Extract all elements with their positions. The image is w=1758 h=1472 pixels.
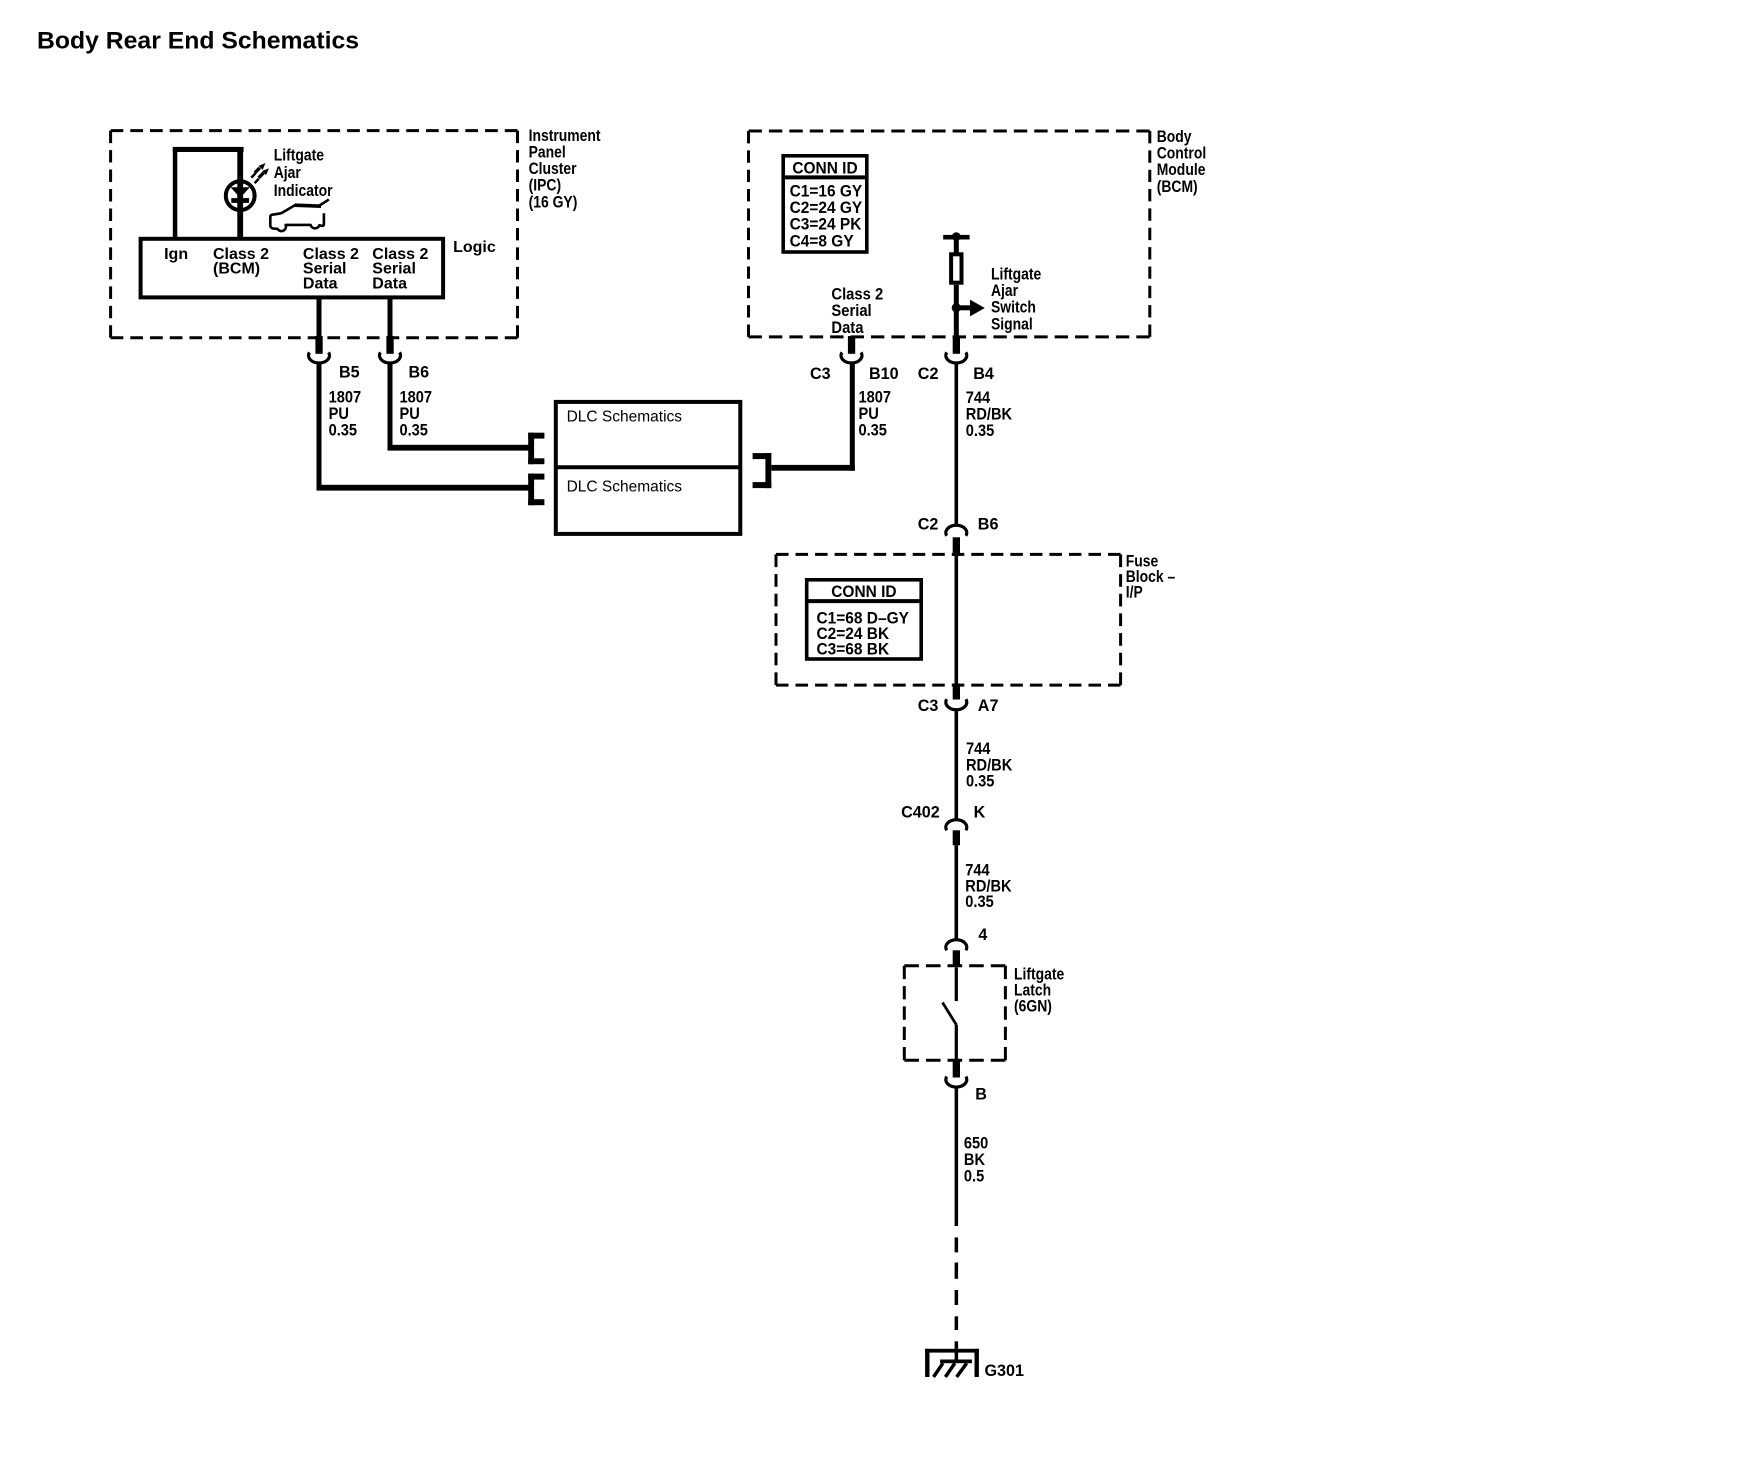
svg-text:C3=68 BK: C3=68 BK [817, 640, 890, 659]
svg-text:C2: C2 [918, 364, 939, 383]
label K [974, 802, 986, 821]
svg-text:DLC Schematics: DLC Schematics [567, 479, 683, 496]
label B6 [409, 362, 430, 381]
CONN ID table (BCM) [783, 156, 867, 252]
IPC box label [529, 127, 601, 212]
svg-text:C2: C2 [918, 514, 939, 533]
label B4 [973, 364, 994, 383]
svg-text:K: K [974, 802, 986, 821]
label B10 [869, 364, 899, 383]
logic box [141, 239, 444, 298]
svg-text:0.35: 0.35 [329, 422, 358, 440]
connector BCM pin B4 (C2) [946, 336, 967, 363]
svg-text:(BCM): (BCM) [1157, 178, 1198, 197]
Instrument Panel Cluster (IPC) dashed box [111, 131, 518, 338]
svg-text:PU: PU [859, 405, 879, 423]
svg-text:A7: A7 [978, 696, 999, 715]
svg-text:Indicator: Indicator [274, 182, 333, 201]
svg-text:BK: BK [964, 1151, 986, 1169]
wire label 744 RD/BK 0.35 (B4) [966, 389, 1013, 440]
svg-text:G301: G301 [985, 1361, 1025, 1380]
label A7 [978, 696, 999, 715]
internal node bar with junction dot (BCM top of resistor) [943, 232, 969, 241]
svg-text:PU: PU [329, 405, 349, 423]
label DLC Schematics (lower) [567, 479, 683, 496]
CONN ID table (fuse block) [807, 580, 922, 659]
wire label 744 RD/BK 0.35 (K) [965, 862, 1012, 912]
junction node with signal arrow [952, 300, 985, 317]
svg-text:B6: B6 [978, 514, 999, 533]
wire: logic box pin B6 to IPC edge [388, 297, 393, 337]
label C2 [918, 364, 939, 383]
label B [975, 1084, 987, 1103]
svg-text:B6: B6 [409, 362, 430, 381]
wire: Ign to indicator loop [173, 147, 244, 237]
title: Body Rear End Schematics [37, 28, 359, 55]
svg-text:C3: C3 [918, 696, 939, 715]
svg-text:Data: Data [372, 275, 407, 292]
wire: dashed section to G301 [955, 1237, 959, 1348]
logic pin label Class 2 (BCM) [213, 246, 269, 278]
BCM box label [1157, 128, 1207, 196]
connector C3 A7 (fuse block out) [946, 684, 967, 710]
svg-text:(16 GY): (16 GY) [529, 193, 578, 212]
logic pin label Class 2 Serial Data (pin B5) [303, 246, 359, 293]
LED light emission arrows [251, 163, 269, 183]
wire: logic box pin B5 to IPC edge [317, 297, 322, 337]
svg-text:CONN ID: CONN ID [792, 159, 858, 178]
svg-text:C402: C402 [901, 802, 940, 821]
svg-text:0.35: 0.35 [966, 422, 995, 440]
resistor (BCM pull-up) [951, 254, 961, 282]
DLC right tap bracket [753, 453, 772, 488]
connector C402 pin K [946, 820, 967, 846]
svg-text:1807: 1807 [329, 389, 362, 407]
DLC upper-left tap bracket [528, 433, 544, 465]
label Logic [453, 239, 496, 256]
DLC lower-left tap bracket [528, 474, 544, 506]
svg-text:Data: Data [303, 275, 338, 292]
svg-text:PU: PU [400, 405, 420, 423]
Body Control Module (BCM) dashed box [749, 131, 1150, 337]
label B6 (fuse) [978, 514, 999, 533]
svg-text:(BCM): (BCM) [213, 261, 260, 278]
logic pin label Ign [164, 246, 188, 263]
svg-text:Ajar: Ajar [274, 164, 301, 183]
svg-text:DLC Schematics: DLC Schematics [567, 409, 683, 426]
svg-text:Class 2: Class 2 [831, 285, 883, 303]
label Liftgate Ajar Switch Signal [991, 265, 1042, 333]
wire: through fuse block [955, 556, 959, 684]
wire: B6 down and right to DLC upper tap [388, 363, 531, 450]
svg-text:B: B [975, 1084, 987, 1103]
latch switch (open) [943, 967, 958, 1060]
connector BCM pin B10 (C3) [841, 336, 862, 363]
LED indicator lamp (Liftgate Ajar Indicator) [226, 181, 255, 210]
svg-text:0.5: 0.5 [964, 1168, 984, 1186]
svg-text:B5: B5 [339, 362, 360, 381]
label G301 [985, 1361, 1025, 1380]
svg-text:1807: 1807 [400, 389, 433, 407]
svg-text:Signal: Signal [991, 315, 1033, 334]
Liftgate Latch dashed box [904, 966, 1005, 1061]
svg-text:C3: C3 [810, 364, 831, 383]
wire label 1807 PU 0.35 (B5) [329, 389, 362, 440]
svg-text:0.35: 0.35 [965, 893, 994, 911]
label C3 (fuse out) [918, 696, 939, 715]
svg-text:0.35: 0.35 [966, 773, 995, 791]
svg-text:Logic: Logic [453, 239, 496, 256]
label 4 [978, 924, 988, 943]
connector IPC pin B5 [309, 336, 330, 363]
svg-text:0.35: 0.35 [859, 422, 888, 440]
ground G301 symbol [925, 1348, 979, 1377]
latch label [1014, 965, 1065, 1015]
connector C2 B6 (fuse block in) [946, 525, 967, 556]
wire: node bar to resistor [954, 240, 959, 253]
svg-text:Body Rear End Schematics: Body Rear End Schematics [37, 28, 359, 55]
svg-text:4: 4 [978, 924, 988, 943]
wire label 744 RD/BK 0.35 (A7) [966, 740, 1013, 791]
wire: C402 to liftgate latch [955, 845, 959, 939]
wire: A7 to C402 [955, 710, 959, 819]
svg-text:Ign: Ign [164, 246, 188, 263]
svg-text:Data: Data [831, 319, 863, 337]
wire: B5 down and right to DLC lower tap [317, 363, 531, 490]
connector IPC pin B6 [380, 336, 401, 363]
svg-text:650: 650 [964, 1135, 989, 1153]
svg-text:B4: B4 [973, 364, 994, 383]
svg-text:B10: B10 [869, 364, 899, 383]
label C2 (fuse) [918, 514, 939, 533]
logic pin label Class 2 Serial Data (pin B6) [372, 246, 428, 293]
svg-text:C4=8 GY: C4=8 GY [790, 232, 854, 251]
label C402 [901, 802, 940, 821]
svg-text:Serial: Serial [831, 302, 871, 320]
label Liftgate Ajar Indicator [274, 146, 333, 200]
liftgate car icon [270, 199, 328, 231]
Fuse Block I/P dashed box [776, 554, 1121, 685]
connector latch pin B [946, 1060, 967, 1087]
DLC Schematics box [556, 402, 741, 534]
label C3 [810, 364, 831, 383]
wire label 650 BK 0.5 [964, 1135, 989, 1186]
wire: latch B to ground (solid part) [955, 1088, 959, 1227]
wire: B4 down to fuse block connector [955, 363, 959, 525]
CONN ID entries (fuse block) [817, 609, 910, 659]
CONN ID title (BCM) [792, 159, 858, 178]
svg-text:0.35: 0.35 [400, 422, 429, 440]
wire: DLC right tap to B10 [771, 363, 855, 470]
label Class 2 Serial Data (BCM pin B10) [831, 285, 883, 337]
svg-text:Liftgate: Liftgate [274, 146, 325, 165]
svg-text:I/P: I/P [1126, 583, 1143, 602]
svg-text:CONN ID: CONN ID [831, 582, 897, 601]
fuse block label [1126, 552, 1176, 602]
connector latch pin 4 [946, 940, 967, 966]
svg-text:1807: 1807 [859, 389, 892, 407]
CONN ID title (fuse block) [831, 582, 897, 601]
svg-text:(6GN): (6GN) [1014, 997, 1052, 1016]
label DLC Schematics (upper) [567, 409, 683, 426]
wire: resistor to BCM edge [954, 285, 959, 337]
wire label 1807 PU 0.35 (B6) [400, 389, 433, 440]
CONN ID entries (BCM) [790, 182, 863, 251]
wire label 1807 PU 0.35 (B10) [859, 389, 892, 440]
label B5 [339, 362, 360, 381]
